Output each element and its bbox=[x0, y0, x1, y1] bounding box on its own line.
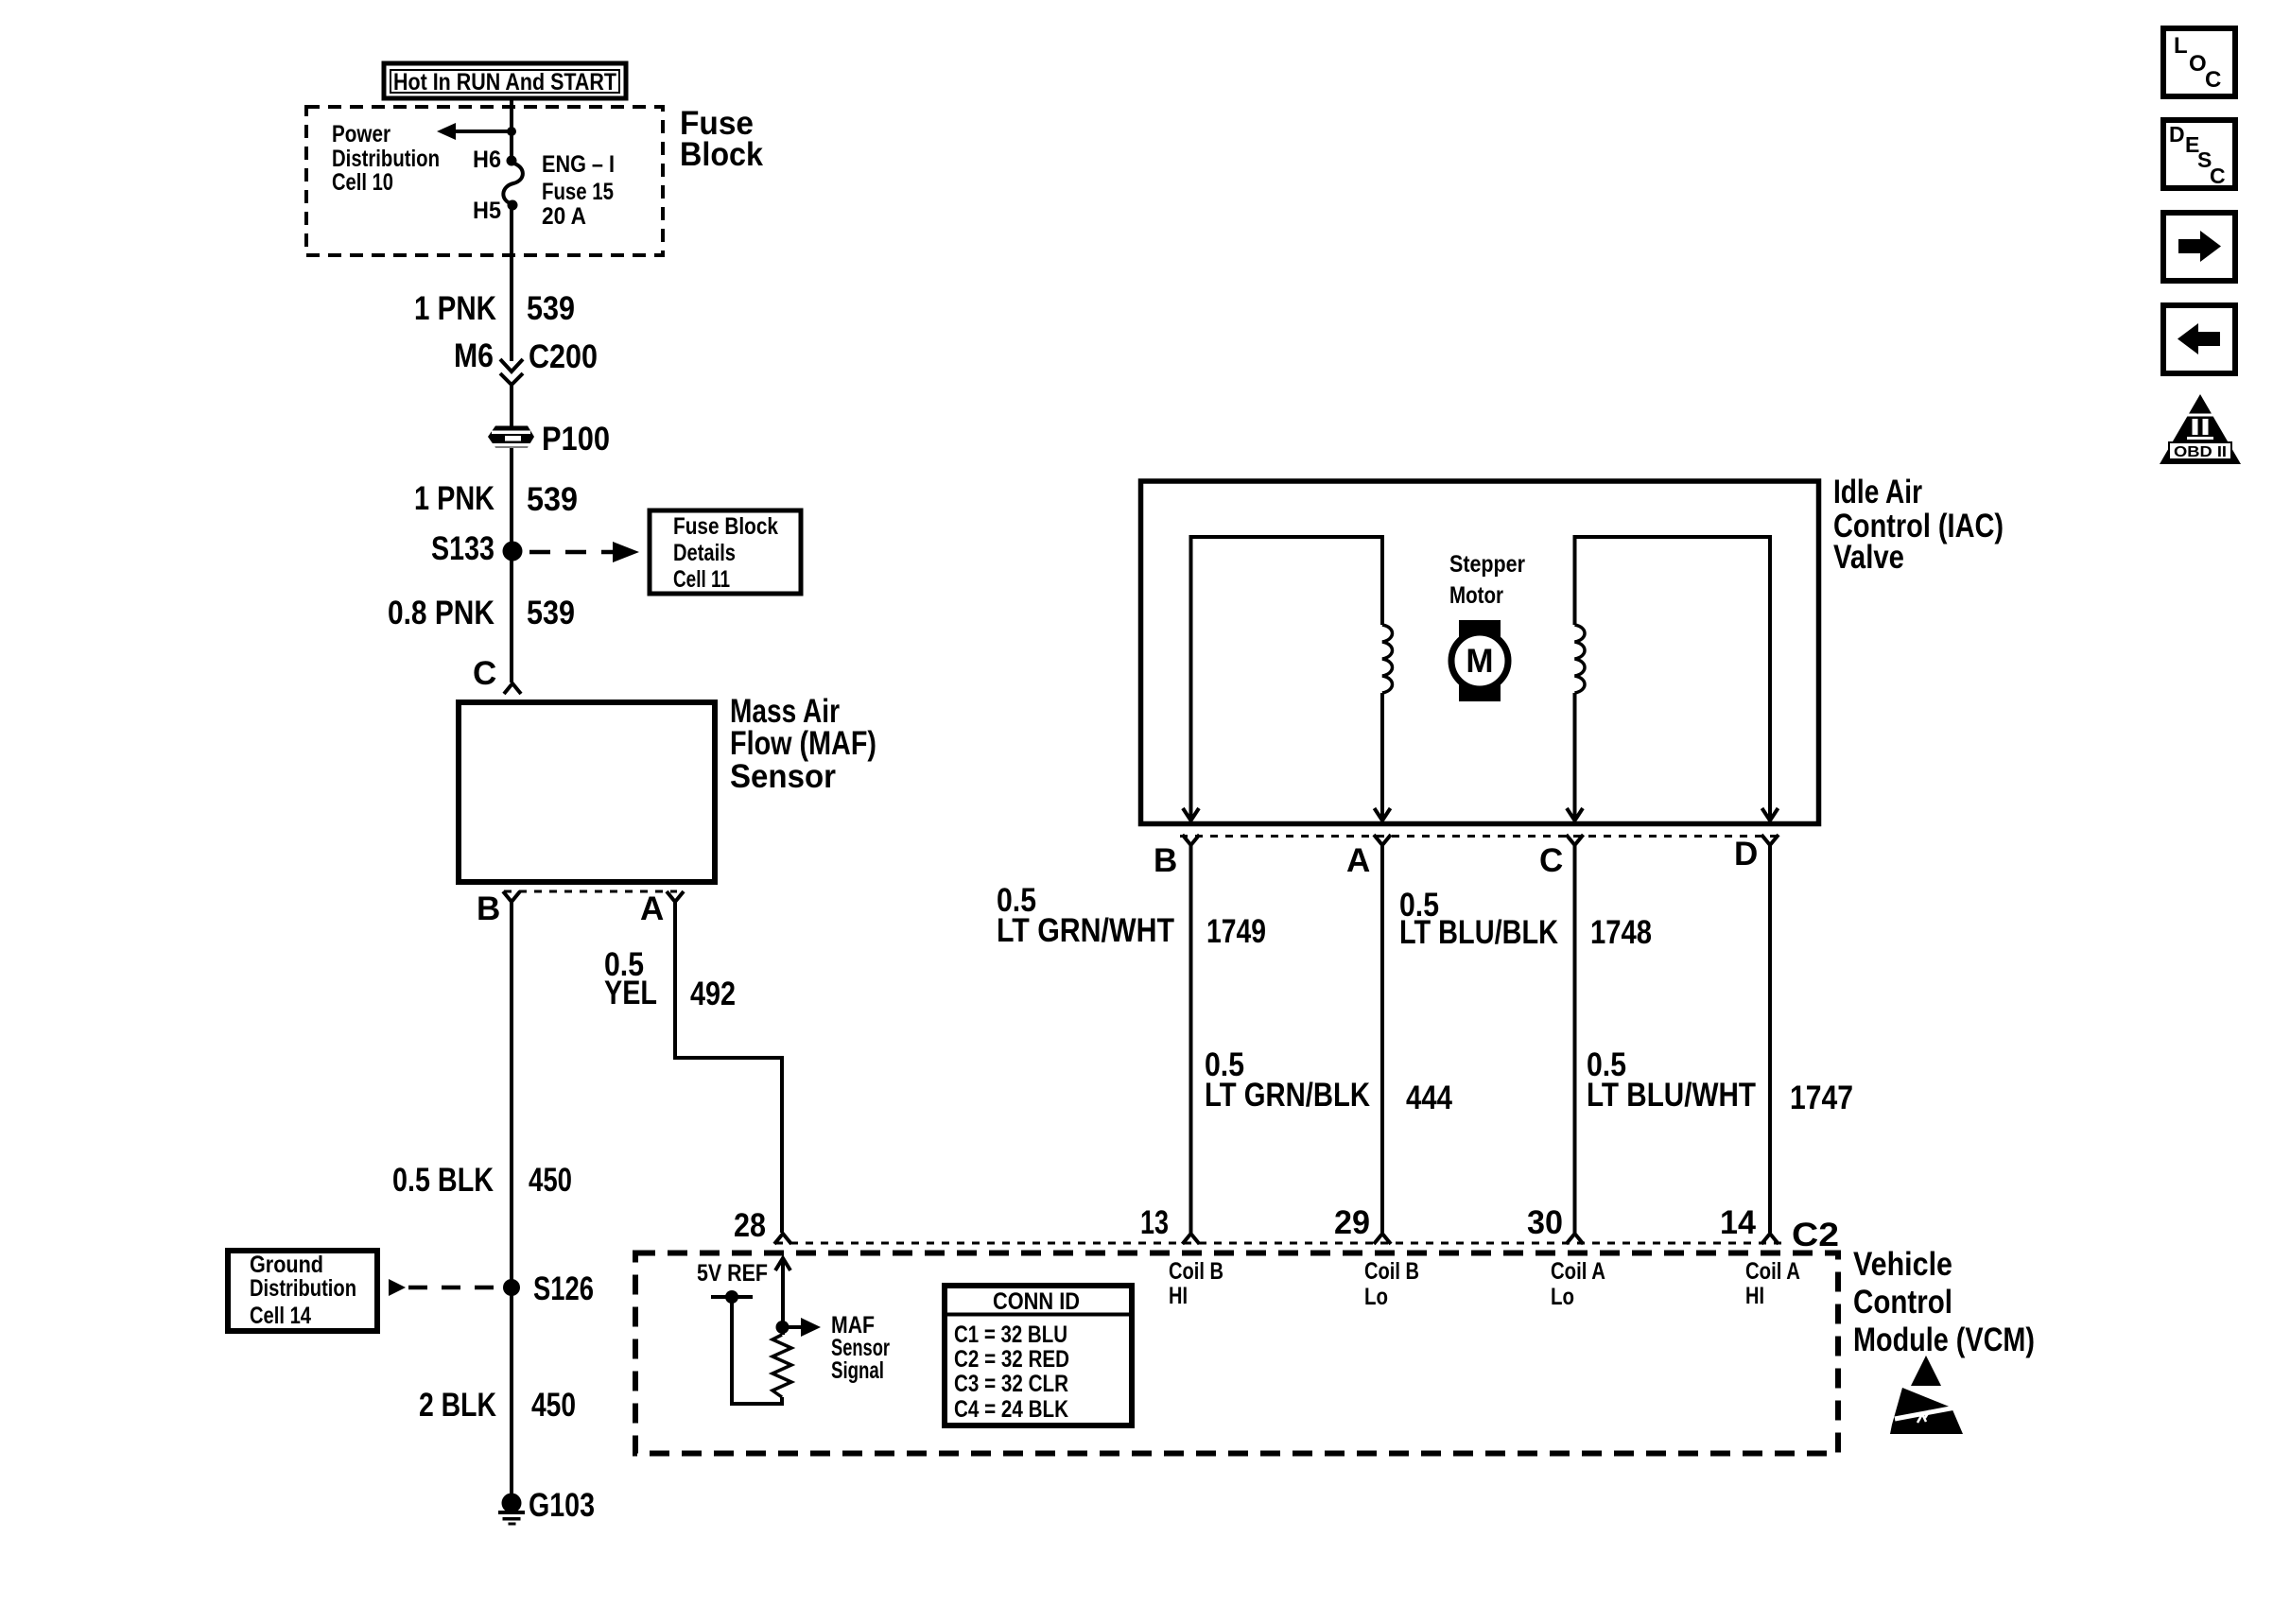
svg-text:CONN ID: CONN ID bbox=[993, 1288, 1080, 1315]
label: Vehicle Control Module (VCM) bbox=[1853, 1246, 2035, 1358]
svg-text:H6: H6 bbox=[473, 147, 501, 173]
wire: IAC D to VCM 14 bbox=[1768, 845, 1772, 1233]
connector C200 pin M6 bbox=[454, 337, 598, 385]
svg-text:539: 539 bbox=[527, 481, 578, 518]
coil A winding (right loop with inductor) bbox=[1575, 537, 1771, 819]
svg-text:P100: P100 bbox=[542, 421, 610, 458]
svg-text:Cell 11: Cell 11 bbox=[673, 566, 730, 593]
arrowhead coil A HI end bbox=[1762, 808, 1778, 821]
pin B of IAC valve bbox=[1154, 835, 1200, 879]
label: 0.5 LT GRN/BLK 444 bbox=[1205, 1046, 1452, 1116]
svg-text:Lo: Lo bbox=[1551, 1284, 1574, 1310]
icon: LOC box bbox=[2163, 28, 2235, 96]
svg-text:1749: 1749 bbox=[1206, 913, 1266, 950]
svg-text:M6: M6 bbox=[454, 337, 494, 374]
fuse F15 ENG-I squiggle bbox=[503, 163, 523, 204]
svg-text:C4 = 24 BLK: C4 = 24 BLK bbox=[954, 1396, 1068, 1423]
svg-text:0.8 PNK: 0.8 PNK bbox=[388, 595, 495, 631]
svg-text:L: L bbox=[2174, 33, 2188, 59]
junction node in fuse block bbox=[507, 127, 516, 136]
svg-text:LT GRN/BLK: LT GRN/BLK bbox=[1205, 1077, 1370, 1114]
wire: C200 to P100 bbox=[510, 385, 513, 426]
svg-text:ENG – I: ENG – I bbox=[542, 151, 615, 178]
pin label: Coil B Lo bbox=[1364, 1258, 1419, 1310]
svg-text:539: 539 bbox=[527, 290, 575, 327]
coil B winding (left loop with inductor) bbox=[1191, 537, 1393, 819]
pin 30 of VCM bbox=[1527, 1204, 1584, 1244]
svg-text:450: 450 bbox=[531, 1387, 576, 1424]
splice S133 bbox=[431, 530, 523, 567]
wire: P100 to S133 bbox=[510, 448, 513, 551]
wire: IAC B to VCM 13 bbox=[1189, 845, 1193, 1233]
svg-text:M: M bbox=[1466, 643, 1493, 680]
pin 13 of VCM bbox=[1140, 1204, 1200, 1244]
stepper motor M bbox=[1451, 620, 1508, 701]
svg-text:Coil B: Coil B bbox=[1169, 1258, 1223, 1285]
svg-text:539: 539 bbox=[527, 595, 575, 631]
svg-text:1747: 1747 bbox=[1790, 1080, 1853, 1116]
wire: branch to power distribution bbox=[452, 130, 512, 133]
svg-text:492: 492 bbox=[690, 976, 736, 1012]
label: 0.5 YEL 492 bbox=[604, 946, 736, 1012]
svg-text:1 PNK: 1 PNK bbox=[414, 480, 495, 517]
svg-text:A: A bbox=[640, 890, 664, 927]
label: 2 BLK 450 bbox=[419, 1387, 576, 1424]
label: 1 PNK 539 bbox=[414, 480, 578, 518]
svg-text:30: 30 bbox=[1527, 1204, 1563, 1241]
node label: Ground Distribution Cell 14 box bbox=[228, 1251, 377, 1331]
svg-text:LT BLU/BLK: LT BLU/BLK bbox=[1399, 914, 1558, 951]
MAF connector dashed line bbox=[504, 890, 677, 893]
svg-text:Fuse Block: Fuse Block bbox=[673, 513, 778, 540]
pin 29 of VCM bbox=[1334, 1204, 1391, 1244]
svg-text:C2 = 32 RED: C2 = 32 RED bbox=[954, 1346, 1069, 1373]
svg-text:D: D bbox=[2169, 122, 2185, 147]
svg-text:28: 28 bbox=[734, 1207, 766, 1244]
fuse block dashed box bbox=[306, 107, 663, 255]
net 5V REF bbox=[697, 1260, 768, 1304]
svg-text:C3 = 32 CLR: C3 = 32 CLR bbox=[954, 1371, 1068, 1397]
pin D of IAC valve bbox=[1734, 835, 1778, 872]
svg-text:Stepper: Stepper bbox=[1449, 551, 1525, 578]
svg-text:Idle Air: Idle Air bbox=[1833, 474, 1922, 510]
svg-text:13: 13 bbox=[1140, 1204, 1169, 1241]
wire: S126 down to ground G103 bbox=[510, 1287, 513, 1503]
dashed reference arrow to S126 bbox=[389, 1279, 501, 1296]
label: Mass Air Flow (MAF) Sensor bbox=[730, 693, 876, 795]
svg-text:YEL: YEL bbox=[604, 975, 657, 1011]
pin C of MAF sensor bbox=[473, 655, 521, 694]
svg-text:20 A: 20 A bbox=[542, 203, 586, 230]
svg-text:HI: HI bbox=[1169, 1283, 1188, 1309]
label: MAF Sensor Signal bbox=[831, 1312, 890, 1384]
svg-text:Ground: Ground bbox=[250, 1252, 323, 1278]
svg-text:G103: G103 bbox=[529, 1487, 595, 1524]
arrowhead coil A Lo end bbox=[1567, 808, 1583, 821]
VCM dashed box bbox=[635, 1253, 1838, 1454]
VCM connector dashed line bbox=[775, 1242, 1787, 1245]
label: Stepper Motor bbox=[1449, 551, 1525, 609]
svg-text:Cell 10: Cell 10 bbox=[332, 169, 393, 196]
wire: hot box to fuse H6 bbox=[510, 98, 513, 163]
svg-text:Power: Power bbox=[332, 121, 390, 147]
wire: 5V REF feed to resistor bottom bbox=[732, 1297, 782, 1404]
svg-text:Signal: Signal bbox=[831, 1357, 884, 1384]
label: 0.5 LT BLU/WHT 1747 bbox=[1587, 1046, 1853, 1116]
pin A of MAF sensor bbox=[640, 890, 684, 927]
svg-text:OBD II: OBD II bbox=[2174, 444, 2227, 460]
svg-text:450: 450 bbox=[529, 1162, 572, 1199]
label: 0.5 LT BLU/BLK 1748 bbox=[1399, 887, 1652, 951]
arrow to Power Distribution bbox=[437, 123, 456, 140]
label: Power Distribution Cell 10 bbox=[332, 121, 440, 196]
icon: back arrow box bbox=[2163, 305, 2235, 373]
icon: forward arrow box bbox=[2163, 213, 2235, 281]
arrow: MAF Sensor Signal bbox=[782, 1318, 821, 1337]
svg-text:Motor: Motor bbox=[1449, 582, 1503, 609]
label: Fuse Block title bbox=[680, 105, 763, 173]
svg-text:2 BLK: 2 BLK bbox=[419, 1387, 496, 1424]
svg-text:A: A bbox=[1346, 842, 1370, 879]
svg-text:Sensor: Sensor bbox=[730, 758, 836, 795]
svg-text:Module (VCM): Module (VCM) bbox=[1853, 1322, 2035, 1358]
svg-text:D: D bbox=[1734, 836, 1758, 872]
svg-text:C: C bbox=[473, 655, 496, 692]
svg-text:HI: HI bbox=[1745, 1283, 1764, 1309]
pin A of IAC valve bbox=[1346, 835, 1391, 879]
ground G103 bbox=[498, 1487, 595, 1526]
label: ENG-I Fuse 15 20 A bbox=[542, 151, 615, 230]
svg-text:C200: C200 bbox=[529, 338, 598, 375]
grommet P100 bbox=[488, 421, 610, 458]
pin C of IAC valve bbox=[1539, 835, 1584, 879]
svg-text:Fuse 15: Fuse 15 bbox=[542, 179, 614, 205]
svg-text:Coil A: Coil A bbox=[1745, 1258, 1800, 1285]
splice S126 bbox=[503, 1270, 594, 1307]
svg-text:Coil A: Coil A bbox=[1551, 1258, 1605, 1285]
node label: Hot In RUN And START box bbox=[384, 63, 626, 98]
svg-text:C: C bbox=[2210, 164, 2226, 188]
svg-text:14: 14 bbox=[1720, 1204, 1757, 1241]
svg-text:Control: Control bbox=[1853, 1284, 1952, 1321]
wire: VCM pin 28 internal with up arrow bbox=[775, 1258, 790, 1335]
svg-text:LT GRN/WHT: LT GRN/WHT bbox=[997, 912, 1174, 949]
wire: MAF pin A down, over to VCM pin 28 bbox=[675, 902, 782, 1233]
svg-text:C2: C2 bbox=[1792, 1217, 1839, 1253]
svg-text:29: 29 bbox=[1334, 1204, 1370, 1241]
svg-text:444: 444 bbox=[1406, 1080, 1452, 1116]
svg-text:LT BLU/WHT: LT BLU/WHT bbox=[1587, 1077, 1756, 1114]
svg-text:0.5 BLK: 0.5 BLK bbox=[392, 1162, 494, 1199]
svg-text:Flow (MAF): Flow (MAF) bbox=[730, 725, 876, 762]
node label: CONN ID table bbox=[945, 1286, 1132, 1425]
label: 0.5 LT GRN/WHT 1749 bbox=[997, 882, 1266, 950]
svg-text:1 PNK: 1 PNK bbox=[414, 290, 496, 327]
svg-text:Lo: Lo bbox=[1364, 1284, 1388, 1310]
svg-text:Distribution: Distribution bbox=[250, 1275, 356, 1302]
svg-text:Vehicle: Vehicle bbox=[1853, 1246, 1952, 1283]
resistor (MAF signal pull-up) bbox=[772, 1335, 791, 1397]
pin 28 of VCM bbox=[734, 1207, 791, 1244]
svg-text:Cell 14: Cell 14 bbox=[250, 1303, 311, 1329]
IAC valve box bbox=[1141, 481, 1819, 824]
svg-text:Details: Details bbox=[673, 540, 736, 566]
icon: OBD II triangle bbox=[2160, 394, 2241, 464]
arrowhead coil B Lo end bbox=[1375, 808, 1391, 821]
IAC connector dashed line bbox=[1180, 835, 1781, 838]
ESD sensitive symbol bbox=[1890, 1356, 1963, 1434]
svg-text:S133: S133 bbox=[431, 530, 495, 567]
dashed reference arrow from S133 bbox=[529, 542, 639, 562]
svg-text:S126: S126 bbox=[533, 1270, 594, 1307]
label: 0.5 BLK 450 bbox=[392, 1162, 572, 1199]
arrowhead coil B HI end bbox=[1183, 808, 1199, 821]
svg-text:B: B bbox=[1154, 842, 1177, 879]
svg-text:C: C bbox=[2205, 67, 2221, 93]
node label: Fuse Block Details Cell 11 box bbox=[650, 510, 801, 594]
svg-text:Coil B: Coil B bbox=[1364, 1258, 1419, 1285]
label: 0.8 PNK 539 bbox=[388, 595, 575, 631]
MAF sensor box bbox=[459, 702, 715, 882]
svg-text:Distribution: Distribution bbox=[332, 146, 440, 172]
label: 1 PNK 539 bbox=[414, 290, 575, 327]
svg-text:B: B bbox=[477, 890, 500, 927]
pin label: Coil B HI bbox=[1169, 1258, 1223, 1309]
pin 14 of VCM bbox=[1720, 1204, 1778, 1244]
svg-text:O: O bbox=[2189, 51, 2207, 77]
svg-text:Block: Block bbox=[680, 136, 763, 173]
svg-text:H5: H5 bbox=[473, 198, 501, 224]
wire: fuse H5 down to connector C200 bbox=[510, 205, 513, 361]
svg-text:1748: 1748 bbox=[1590, 914, 1652, 951]
svg-text:C1 = 32 BLU: C1 = 32 BLU bbox=[954, 1322, 1067, 1348]
pin B of MAF sensor bbox=[477, 890, 520, 927]
label: Idle Air Control (IAC) Valve bbox=[1833, 474, 2004, 576]
wire: IAC A to VCM 29 bbox=[1380, 845, 1384, 1233]
wire: MAF pin B down to S126 bbox=[510, 902, 513, 1287]
wire: S133 down to MAF pin C bbox=[510, 551, 513, 682]
svg-text:Valve: Valve bbox=[1833, 539, 1904, 576]
junction at MAF signal tap bbox=[776, 1321, 789, 1334]
svg-text:C: C bbox=[1539, 842, 1563, 879]
pin label: Coil A Lo bbox=[1551, 1258, 1605, 1310]
pin label: Coil A HI bbox=[1745, 1258, 1800, 1309]
svg-text:5V REF: 5V REF bbox=[697, 1260, 768, 1287]
svg-text:Hot In RUN And START: Hot In RUN And START bbox=[393, 69, 616, 95]
wire: IAC C to VCM 30 bbox=[1573, 845, 1577, 1233]
icon: DESC box bbox=[2163, 120, 2235, 188]
